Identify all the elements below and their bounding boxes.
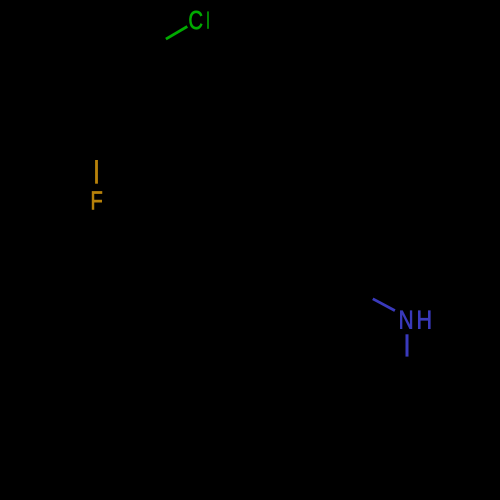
bond C4a-N diagonal (nitrogen half, blue) xyxy=(373,299,395,311)
bond C6-F (fluorine half, goldenrod) xyxy=(95,160,98,184)
atom label NH : letter N xyxy=(400,311,412,329)
atom label F xyxy=(92,192,102,210)
atom label Cl : letter l (short ascender) xyxy=(207,11,209,28)
bond N-C3 vertical (nitrogen half, blue) xyxy=(406,334,409,356)
bond C2-Cl (chlorine half, green) xyxy=(166,27,187,40)
atom label Cl : letter C xyxy=(189,11,202,29)
atom label NH : letter H xyxy=(418,311,430,329)
